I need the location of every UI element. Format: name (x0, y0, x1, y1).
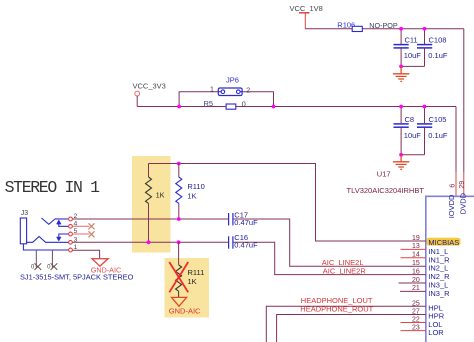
junction C11 bottom (399, 65, 403, 69)
wire NO-POP rail (305, 28, 464, 30)
capacitor C11 (394, 29, 422, 67)
junction C11 top (399, 27, 403, 31)
svg-text:NO-POP: NO-POP (369, 21, 398, 30)
svg-text:25: 25 (412, 300, 420, 307)
svg-text:IN3_R: IN3_R (428, 289, 450, 298)
capacitor C108 (417, 29, 448, 67)
power symbol VCC_3V3 (133, 81, 166, 106)
svg-text:15: 15 (412, 260, 420, 267)
IC U17 body (426, 196, 474, 342)
junction C105 top (423, 105, 427, 109)
svg-text:2: 2 (246, 88, 250, 95)
wire VCC_3V3 rail (137, 106, 456, 108)
pin 13 stub IN1_L (401, 248, 426, 250)
wire HEADPHONE_ROUT net (277, 315, 426, 342)
wire IOVDD vertical (455, 107, 457, 173)
pin 5 of J3 (69, 228, 95, 237)
svg-text:SJ1-3515-SMT, 5PJACK STEREO: SJ1-3515-SMT, 5PJACK STEREO (20, 272, 134, 281)
junction R109 bottom (147, 240, 151, 244)
junction R110 bottom (177, 217, 181, 221)
capacitor C105 (417, 107, 448, 155)
capacitor C16 (229, 233, 258, 250)
mount stub 2 of J3 (47, 251, 57, 271)
svg-text:13: 13 (412, 243, 420, 250)
svg-text:HEADPHONE_LOUT: HEADPHONE_LOUT (301, 296, 373, 305)
svg-text:0.47uF: 0.47uF (234, 218, 258, 227)
svg-text:R111: R111 (188, 268, 205, 277)
svg-text:27: 27 (412, 309, 420, 316)
svg-text:VCC_3V3: VCC_3V3 (133, 81, 166, 90)
mount stub 1 of J3 (31, 251, 41, 271)
junction C108 top (423, 27, 427, 31)
svg-text:1K: 1K (188, 277, 197, 286)
wire joining C8/C105 bottoms (401, 154, 424, 156)
svg-text:JP6: JP6 (226, 76, 239, 85)
resistor R5 (204, 99, 246, 109)
power symbol VCC_1V8 (290, 4, 323, 29)
pin 3 of J3 (69, 236, 78, 244)
no-connect X over R111 (169, 262, 188, 292)
pin 22 stub LOL (401, 322, 426, 324)
svg-text:3: 3 (74, 236, 78, 243)
resistor R109 (1K, highlighted) (146, 164, 165, 243)
ground symbol below C8 (393, 155, 409, 170)
svg-text:IOVDD: IOVDD (447, 194, 456, 218)
svg-text:STEREO IN 1: STEREO IN 1 (5, 178, 101, 197)
svg-text:VCC_1V8: VCC_1V8 (290, 4, 323, 13)
junction R111 top (177, 240, 181, 244)
svg-text:C11: C11 (405, 36, 418, 45)
wire AIC_LINE2R net left of C16 (73, 241, 229, 243)
pin 2 of J3 (69, 213, 78, 221)
capacitor C17 (229, 211, 258, 228)
ground GND-AIC below R111 (169, 297, 201, 315)
svg-text:C105: C105 (429, 115, 447, 124)
wire pin1 to ground (73, 250, 100, 258)
svg-text:1K: 1K (156, 193, 165, 200)
wire AIC_LINE2L net right of C17 (233, 219, 426, 266)
pin 21 stub IN3_R (400, 290, 426, 292)
pin 6 IOVDD stub (455, 172, 457, 196)
wire AIC_LINE2R net right of C16 (233, 242, 426, 274)
svg-text:10uF: 10uF (404, 131, 422, 140)
wire AIC_LINE2L net left of C17 (73, 218, 229, 220)
junction R110 top (177, 162, 181, 166)
svg-text:GND-AIC: GND-AIC (169, 306, 201, 315)
svg-text:HEADPHONE_ROUT: HEADPHONE_ROUT (300, 305, 373, 314)
wire joining C11/C108 bottoms (401, 65, 424, 67)
svg-text:16: 16 (412, 268, 420, 275)
wire HEADPHONE_LOUT net (266, 306, 426, 342)
svg-text:6: 6 (450, 184, 457, 188)
svg-text:MICBIAS: MICBIAS (428, 238, 459, 247)
svg-text:C108: C108 (429, 36, 447, 45)
svg-text:R110: R110 (187, 182, 204, 191)
svg-text:29: 29 (459, 181, 466, 189)
svg-text:19: 19 (412, 235, 420, 242)
svg-text:0: 0 (242, 100, 246, 109)
highlight box around resistor R111 (165, 258, 210, 318)
svg-text:22: 22 (412, 316, 420, 323)
svg-text:R5: R5 (204, 99, 214, 108)
capacitor C8 (394, 107, 422, 155)
resistor R111 (176, 242, 205, 297)
svg-text:J3: J3 (21, 210, 29, 217)
svg-text:14: 14 (412, 252, 420, 259)
svg-text:AIC_LINE2R: AIC_LINE2R (323, 267, 367, 276)
junction C8 top (399, 105, 403, 109)
pin 1 of J3 (69, 244, 78, 252)
wire MICBIAS net (149, 164, 426, 242)
wire JP6 right riser (242, 92, 273, 107)
svg-text:0.1uF: 0.1uF (428, 51, 448, 60)
svg-text:2: 2 (74, 213, 78, 220)
svg-text:10uF: 10uF (404, 51, 422, 60)
svg-text:23: 23 (412, 324, 420, 331)
pin 29 DVDD stub (463, 172, 465, 196)
ground symbol below C11 (393, 66, 409, 81)
resistor R110 (176, 164, 205, 220)
ground GND-AIC at J3 (91, 259, 121, 275)
svg-text:C8: C8 (405, 115, 415, 124)
svg-text:1K: 1K (187, 192, 196, 201)
svg-text:TLV320AIC3204IRHBT: TLV320AIC3204IRHBT (347, 186, 425, 195)
svg-text:0.1uF: 0.1uF (428, 131, 448, 140)
junction JP6 left (177, 105, 181, 109)
highlight MICBIAS (427, 238, 461, 246)
svg-text:DVDD: DVDD (458, 192, 467, 214)
resistor R106 (337, 20, 362, 31)
pin 20 stub IN3_L (399, 282, 426, 284)
svg-text:LOR: LOR (428, 328, 444, 337)
svg-text:U17: U17 (377, 170, 391, 179)
pin 14 stub IN1_R (401, 257, 426, 259)
pin 23 stub LOR (401, 330, 426, 332)
svg-text:1: 1 (210, 87, 214, 94)
connector J3 (20, 210, 68, 250)
pin 4 of J3 (69, 221, 95, 230)
junction JP6 right (272, 105, 276, 109)
wire JP6 left riser (179, 92, 218, 107)
junction C8 bottom (399, 153, 403, 157)
highlight box around resistor R109 (132, 156, 171, 253)
wire DVDD vertical from NO-POP (463, 29, 465, 172)
jumper JP6 (218, 76, 242, 96)
